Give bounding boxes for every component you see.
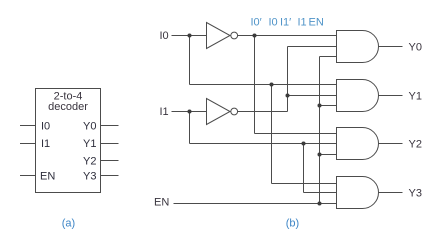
- svg-text:Y0: Y0: [409, 42, 422, 54]
- inverter U2 triangle: [207, 23, 231, 49]
- wire EN rail up: [319, 57, 321, 204]
- wire I1' rail up: [287, 47, 289, 112]
- pin stub Y1 (a): [101, 143, 119, 145]
- svg-text:decoder: decoder: [48, 101, 88, 113]
- pin stub Y3 (a): [101, 175, 119, 177]
- wire I1' to Y0 middle input: [288, 46, 337, 48]
- wire I1 rail down: [303, 144, 305, 193]
- block U1 2-to-4 decoder body: [36, 89, 101, 193]
- AND gate U5 (Y1): [337, 80, 379, 112]
- wire I1 to Y2 middle input: [190, 143, 337, 145]
- svg-text:I1: I1: [41, 138, 50, 150]
- wire EN to Y2 bottom input: [320, 154, 337, 156]
- inverter U3 triangle: [207, 99, 231, 125]
- junction I1 branch: [188, 110, 192, 114]
- wire I0 rail down: [271, 85, 273, 184]
- pin stub EN (a): [20, 175, 36, 177]
- pin stub Y0 (a): [101, 125, 119, 127]
- wire I1 branch down: [189, 112, 191, 144]
- junction I0 branch: [188, 34, 192, 38]
- svg-text:Y2: Y2: [83, 156, 96, 168]
- svg-text:Y2: Y2: [409, 139, 422, 151]
- wire I1 to Y3 middle input: [304, 192, 337, 194]
- wire I0' from inverter to Y0 top input: [237, 35, 336, 37]
- junction I1 rail: [302, 142, 306, 146]
- junction EN Y3: [318, 202, 322, 206]
- wire Y1 output: [379, 95, 403, 97]
- wire I0 to Y3 top input: [272, 183, 337, 185]
- svg-text:Y3: Y3: [83, 171, 96, 183]
- svg-text:I0′: I0′: [251, 17, 262, 29]
- inverter U2 bubble: [231, 32, 238, 39]
- junction I1' Y1: [286, 94, 290, 98]
- svg-text:I0: I0: [41, 121, 50, 133]
- pin stub I1 (a): [20, 143, 36, 145]
- wire EN to Y1 bottom input: [320, 105, 337, 107]
- wire I1' to Y1 middle input: [288, 95, 337, 97]
- pin stub I0 (a): [20, 125, 36, 127]
- svg-text:Y0: Y0: [83, 121, 96, 133]
- svg-text:(b): (b): [286, 218, 299, 230]
- svg-text:Y3: Y3: [409, 188, 422, 200]
- svg-text:I0: I0: [269, 17, 278, 29]
- wire I0 branch down: [189, 36, 191, 85]
- svg-text:(a): (a): [62, 218, 75, 230]
- wire Y3 output: [379, 192, 403, 194]
- svg-text:I1: I1: [160, 106, 169, 118]
- svg-text:I0: I0: [160, 30, 169, 42]
- wire I0' rail down: [254, 36, 256, 134]
- svg-text:I1: I1: [298, 17, 307, 29]
- svg-text:Y1: Y1: [409, 91, 422, 103]
- junction I0' rail: [253, 34, 257, 38]
- AND gate U4 (Y0): [337, 31, 379, 63]
- wire I0 lead: [172, 35, 207, 37]
- junction I0 rail: [270, 83, 274, 87]
- wire I1' from inverter: [237, 111, 287, 113]
- svg-text:EN: EN: [309, 17, 324, 29]
- svg-text:EN: EN: [154, 197, 169, 209]
- wire I0 to Y1 top input: [190, 84, 337, 86]
- wire EN lead to Y3 bottom input: [174, 203, 337, 205]
- wire I1 lead: [172, 111, 207, 113]
- pin stub Y2 (a): [101, 160, 119, 162]
- wire I0' to Y2 top input: [255, 133, 337, 135]
- svg-text:EN: EN: [40, 171, 55, 183]
- svg-text:I1′: I1′: [280, 17, 291, 29]
- junction EN Y1: [318, 104, 322, 108]
- inverter U3 bubble: [231, 108, 238, 115]
- svg-text:Y1: Y1: [83, 138, 96, 150]
- AND gate U7 (Y3): [337, 177, 379, 209]
- wire EN to Y0 bottom input: [320, 56, 337, 58]
- wire Y0 output: [379, 46, 403, 48]
- wire Y2 output: [379, 143, 403, 145]
- junction EN Y2: [318, 153, 322, 157]
- AND gate U6 (Y2): [337, 128, 379, 160]
